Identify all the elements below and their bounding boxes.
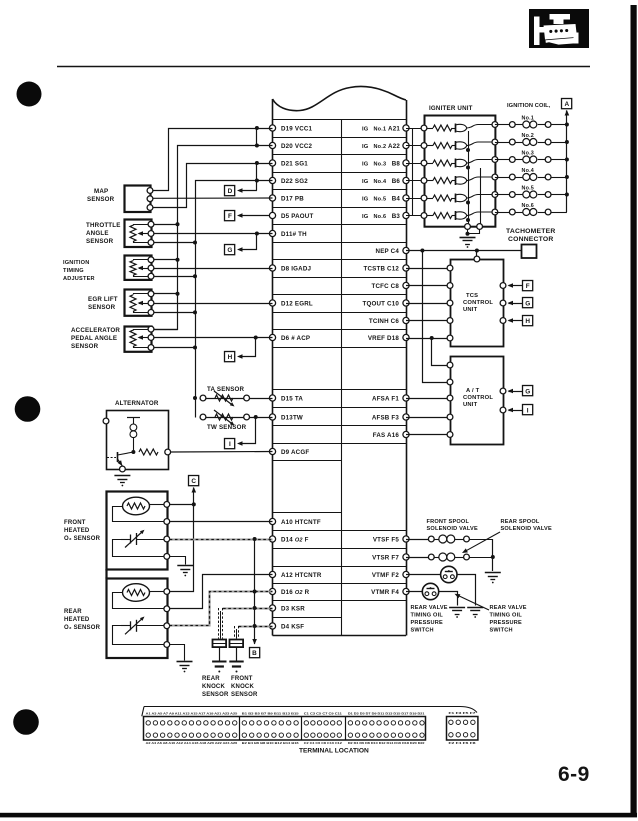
- svg-text:IGNITER UNIT: IGNITER UNIT: [429, 105, 473, 112]
- svg-text:ACCELERATOR: ACCELERATOR: [71, 327, 120, 334]
- terminal group D pins: [348, 721, 352, 725]
- TCS pin (VREF): [447, 335, 453, 341]
- throttle angle sensor pins: [148, 221, 154, 227]
- terminal strip cover line: [142, 707, 477, 717]
- wire coil No.6: [495, 212, 510, 214]
- svg-text:KNOCK: KNOCK: [202, 684, 225, 690]
- TCS pin (TCSTB): [447, 265, 453, 271]
- svg-text:A22: A22: [388, 143, 400, 150]
- ground (front O2 sensor): [177, 565, 193, 567]
- front O2 heater element: [123, 497, 150, 515]
- svg-text:ADJUSTER: ADJUSTER: [63, 276, 95, 282]
- throttle angle sensor wiper arrow: [139, 233, 148, 235]
- TCS top pin: [474, 256, 480, 262]
- ECU right pin terminal at y=398.0: [403, 395, 409, 401]
- svg-text:No.1: No.1: [374, 126, 387, 132]
- ignition timing adjuster box: [125, 256, 152, 280]
- rear O2 sensing element: [121, 625, 130, 627]
- wire igniter ground pins joined: [468, 230, 480, 234]
- wire coil No.4 to common feed: [551, 177, 567, 179]
- valve timing oil pressure switch (VTMR): [422, 583, 438, 599]
- svg-text:No.5: No.5: [374, 196, 387, 202]
- svg-text:FAS A16: FAS A16: [373, 432, 400, 439]
- svg-text:I: I: [229, 441, 231, 448]
- svg-text:PRESSURE: PRESSURE: [490, 620, 522, 626]
- wire coil No.5 to common feed: [551, 194, 567, 196]
- ignition coil No.5 winding: [515, 194, 522, 196]
- svg-text:No.6: No.6: [374, 214, 387, 220]
- tachometer connector box: [522, 245, 537, 259]
- svg-text:CONTROL: CONTROL: [463, 395, 493, 401]
- igniter transistor Q5: [455, 194, 457, 203]
- svg-text:D19 VCC1: D19 VCC1: [281, 125, 313, 132]
- svg-text:VTSR F7: VTSR F7: [372, 554, 399, 561]
- bottom page edge bar: [0, 813, 637, 818]
- connector I (boxed) with arrow from D13 TW row: [225, 439, 235, 449]
- A/T pin (VREF): [447, 362, 453, 368]
- svg-text:HEATED: HEATED: [64, 617, 90, 623]
- ECU right pin terminal at y=434.5: [403, 431, 409, 437]
- binder hole bottom: [13, 709, 39, 735]
- igniter transistor Q6: [455, 211, 457, 220]
- ECU left pin terminal at y=337.5: [269, 334, 275, 340]
- wire coil No.2 to common feed: [551, 142, 567, 144]
- ECU left pin terminal at y=417.0: [269, 414, 275, 420]
- terminal strip F group box: [447, 717, 478, 741]
- header rule: [57, 66, 590, 68]
- ECU left pin terminal at y=591.5: [269, 588, 275, 594]
- svg-text:D14 O2 F: D14 O2 F: [281, 536, 309, 543]
- shielded wire front O2 signal to D14 O2F: [170, 538, 273, 540]
- svg-text:SWITCH: SWITCH: [490, 628, 513, 634]
- wire solenoid common to ground: [492, 539, 494, 571]
- TW sensor thermistor: [200, 414, 206, 420]
- ignition timing adjuster wiper arrow: [139, 268, 148, 270]
- svg-text:F2 F4 F6 F8: F2 F4 F6 F8: [449, 741, 477, 745]
- svg-text:D13TW: D13TW: [281, 414, 303, 421]
- svg-text:D8 IGADJ: D8 IGADJ: [281, 265, 311, 272]
- svg-text:REAR VALVE: REAR VALVE: [411, 605, 448, 611]
- ECU right pin terminal at y=145.5: [403, 142, 409, 148]
- junction D19/D20 tie: [255, 126, 259, 130]
- wire TQOUT to TCS pin: [406, 303, 450, 305]
- wire coil No.2: [495, 142, 510, 144]
- igniter input terminal No.5: [421, 195, 427, 201]
- igniter input terminal No.3: [421, 160, 427, 166]
- ECU internal divider: [341, 120, 343, 636]
- svg-text:A10 HTCNTF: A10 HTCNTF: [281, 519, 321, 526]
- alternator emitter ground terminal: [120, 466, 126, 472]
- svg-text:D4 KSF: D4 KSF: [281, 623, 304, 630]
- ECU right pin terminal at y=128.0: [403, 125, 409, 131]
- wire VTMR switch to ground: [439, 592, 458, 606]
- ECU left pin terminal at y=303.0: [269, 300, 275, 306]
- wire NEP C4 to tachometer connector: [406, 250, 522, 252]
- wire IG No.5 ECU to igniter: [406, 198, 424, 200]
- A/T pin (AFSA): [447, 395, 453, 401]
- wire MAP mid to D17 PB: [150, 197, 273, 199]
- svg-text:SENSOR: SENSOR: [71, 343, 99, 350]
- wire coil No.5: [495, 194, 510, 196]
- wire C bus down to rear O2 heater+: [170, 505, 194, 592]
- igniter input terminal No.4: [421, 178, 427, 184]
- rear O2 heater element: [123, 584, 150, 602]
- EGR lift sensor wiper arrow: [139, 303, 148, 305]
- rear knock sensor: [213, 640, 227, 648]
- svg-text:H: H: [228, 354, 233, 361]
- svg-text:F1 F3 F5 F7: F1 F3 F5 F7: [449, 711, 477, 715]
- svg-text:SENSOR: SENSOR: [87, 196, 115, 203]
- svg-text:A / T: A / T: [466, 388, 480, 394]
- svg-text:FRONT: FRONT: [64, 520, 86, 526]
- ground (igniter unit): [460, 237, 476, 239]
- ECU right pin terminal at y=574.5: [403, 571, 409, 577]
- wire TCSTB to TCS pin: [406, 268, 450, 270]
- igniter collector wire No.6: [467, 212, 495, 216]
- igniter transistor Q2: [455, 141, 457, 150]
- binder hole top: [17, 82, 42, 107]
- junction D21/D22 tie + stub to connector D: [255, 161, 259, 165]
- svg-text:CONNECTOR: CONNECTOR: [508, 236, 553, 243]
- wire VTS row front spool solenoid valve: [406, 539, 428, 541]
- svg-text:D11# TH: D11# TH: [281, 231, 307, 238]
- TCS pin (TQOUT): [447, 300, 453, 306]
- ECU right pin terminal at y=180.5: [403, 177, 409, 183]
- ECM/ECU main box (torn top edge): [273, 87, 407, 111]
- wire VTMF F2 to front switch: [406, 574, 441, 576]
- svg-text:D20 VCC2: D20 VCC2: [281, 143, 313, 150]
- A/T right pin to connector I: [500, 407, 506, 413]
- svg-text:REAR VALVE: REAR VALVE: [490, 605, 527, 611]
- svg-text:F: F: [526, 283, 530, 290]
- svg-text:TIMING OIL: TIMING OIL: [490, 613, 523, 619]
- svg-text:KNOCK: KNOCK: [231, 684, 254, 690]
- ECU right pin terminal at y=163.0: [403, 160, 409, 166]
- svg-text:O₂ SENSOR: O₂ SENSOR: [64, 625, 101, 631]
- igniter resistor R3: [427, 163, 433, 165]
- shielded wire D4 KSF to front knock sensor: [238, 625, 272, 627]
- svg-text:TIMING OIL: TIMING OIL: [411, 613, 444, 619]
- terminal group B pins: [242, 721, 246, 725]
- svg-text:C2 C4 C6 C8 C10 C12: C2 C4 C6 C8 C10 C12: [304, 741, 342, 745]
- igniter output terminal No.6: [492, 209, 498, 215]
- wire EGR bottom to SG2 bus: [151, 312, 195, 314]
- ECU left pin terminal at y=539.0: [269, 536, 275, 542]
- svg-text:TA SENSOR: TA SENSOR: [207, 386, 245, 393]
- ignition coil No.1 winding: [515, 124, 522, 126]
- wire IG No.4 ECU to igniter: [406, 180, 424, 182]
- igniter collector wire No.3: [467, 160, 495, 164]
- svg-text:C1 C3 C5 C7 C9 C11: C1 C3 C5 C7 C9 C11: [304, 711, 342, 715]
- ground (VTMR switch): [449, 607, 465, 609]
- wire VTMR F4 to rear switch: [406, 591, 422, 593]
- wire front O2 heater- to A10 HTCNTF: [170, 521, 273, 523]
- svg-text:O₂ SENSOR: O₂ SENSOR: [64, 536, 101, 542]
- svg-text:THROTTLE: THROTTLE: [86, 222, 121, 229]
- wire VTMF switch to ground: [458, 575, 476, 606]
- wire coil No.1: [495, 124, 510, 126]
- ECU right pin terminal at y=303.0: [403, 300, 409, 306]
- wire coil No.3: [495, 159, 510, 161]
- wire accelerator top to VCC2 bus end: [151, 329, 178, 331]
- ECU right pin terminal at y=417.0: [403, 414, 409, 420]
- A/T right pin to connector G: [500, 388, 506, 394]
- throttle angle sensor box: [125, 220, 152, 248]
- ignition coil No.6 winding: [515, 212, 522, 214]
- igniter output terminal No.5: [492, 192, 498, 198]
- svg-text:B4: B4: [392, 195, 401, 202]
- wire EGR top to VCC2 bus: [151, 293, 178, 295]
- igniter emitter rail 2: [480, 168, 482, 227]
- wire rear O2 heater- to A12 HTCNTR: [170, 575, 273, 609]
- TCS right pin to connector G: [500, 300, 506, 306]
- A/T pin (NEP): [447, 379, 453, 385]
- wire TCFC to TCS pin: [406, 285, 450, 287]
- svg-text:TW SENSOR: TW SENSOR: [207, 424, 247, 431]
- svg-text:No.4: No.4: [374, 179, 387, 185]
- wire front O2 ground: [170, 557, 186, 565]
- wire coil No.1 to common feed: [551, 124, 567, 126]
- ignition timing adjuster potentiometer: [130, 261, 136, 276]
- ground (rear O2 sensor): [177, 661, 193, 663]
- ECU right pin terminal at y=215.5: [403, 212, 409, 218]
- svg-text:VTMF F2: VTMF F2: [372, 572, 400, 579]
- svg-text:D9 ACGF: D9 ACGF: [281, 449, 309, 456]
- igniter output terminal No.2: [492, 139, 498, 145]
- front knock sensor: [230, 640, 244, 648]
- svg-text:SOLENOID VALVE: SOLENOID VALVE: [501, 526, 552, 532]
- svg-text:EGR LIFT: EGR LIFT: [88, 296, 118, 303]
- igniter collector wire No.1: [467, 125, 495, 129]
- svg-text:H: H: [525, 318, 530, 325]
- svg-text:VTMR F4: VTMR F4: [371, 589, 399, 596]
- svg-text:B8: B8: [392, 160, 401, 167]
- ECU right pin terminal at y=198.0: [403, 195, 409, 201]
- svg-text:B: B: [252, 650, 257, 657]
- svg-text:TACHOMETER: TACHOMETER: [506, 228, 555, 235]
- accelerator pedal angle sensor box: [125, 327, 152, 352]
- svg-text:D17 PB: D17 PB: [281, 195, 304, 202]
- svg-text:AFSA F1: AFSA F1: [372, 395, 399, 402]
- svg-text:FRONT SPOOL: FRONT SPOOL: [427, 519, 470, 525]
- MAP sensor pins: [147, 188, 153, 194]
- wire IG No.6 ECU to igniter: [406, 215, 424, 217]
- svg-text:D: D: [228, 188, 233, 195]
- wire throttle top to VCC2 bus: [151, 224, 178, 226]
- svg-text:D5 PAOUT: D5 PAOUT: [281, 213, 313, 220]
- alternator internal coil L: [127, 417, 140, 419]
- svg-text:D15 TA: D15 TA: [281, 395, 303, 402]
- svg-text:A21: A21: [388, 125, 400, 132]
- svg-text:D12 EGRL: D12 EGRL: [281, 300, 313, 307]
- front O2 connector pins: [164, 502, 170, 508]
- wire alternator to D9 ACGF: [171, 451, 273, 454]
- accelerator pedal angle sensor pins: [148, 326, 154, 332]
- wire accelerator bottom to SG2 bus: [151, 347, 195, 349]
- ignition coil No.2 winding: [515, 142, 522, 144]
- svg-text:SENSOR: SENSOR: [88, 304, 116, 311]
- ground (VTMF switch): [467, 607, 483, 609]
- accelerator pedal angle sensor potentiometer: [130, 330, 136, 346]
- svg-text:REAR SPOOL: REAR SPOOL: [501, 519, 540, 525]
- svg-text:IG: IG: [362, 196, 369, 202]
- throttle angle sensor potentiometer: [130, 225, 136, 241]
- svg-text:MAP: MAP: [94, 188, 108, 195]
- igniter ground pins: [465, 224, 471, 230]
- svg-text:IGNITION COIL,: IGNITION COIL,: [507, 103, 551, 109]
- svg-text:CONTROL: CONTROL: [463, 300, 493, 306]
- harness ladder between ECU and igniter: [412, 128, 414, 216]
- svg-text:D2 D4 D6 D8 D10 D12 D14 D16 D1: D2 D4 D6 D8 D10 D12 D14 D16 D18 D20 D22: [348, 741, 425, 745]
- svg-text:TCINH C6: TCINH C6: [369, 318, 399, 325]
- svg-text:TCFC C8: TCFC C8: [371, 283, 399, 290]
- ECU right pin terminal at y=557.0: [403, 554, 409, 560]
- igniter resistor R6: [427, 215, 433, 217]
- connector G (boxed) with arrow from D11 TH row: [225, 245, 235, 255]
- svg-text:SWITCH: SWITCH: [411, 628, 434, 634]
- svg-text:TQOUT C10: TQOUT C10: [362, 300, 399, 307]
- svg-text:G: G: [227, 247, 232, 254]
- right page edge bar: [631, 5, 637, 817]
- igniter input terminal No.1: [421, 125, 427, 131]
- connector A (boxed) with up arrow: [562, 99, 572, 109]
- svg-text:ALTERNATOR: ALTERNATOR: [115, 400, 159, 407]
- terminal group C pins: [304, 721, 308, 725]
- ECU right pin terminal at y=591.5: [403, 588, 409, 594]
- ECU right pin terminal at y=250.5: [403, 247, 409, 253]
- svg-text:D22 SG2: D22 SG2: [281, 178, 308, 185]
- igniter resistor R1: [427, 128, 433, 130]
- svg-text:D1 D3 D5 D7 D9 D11 D13 D15 D17: D1 D3 D5 D7 D9 D11 D13 D15 D17 D19 D21: [348, 711, 425, 715]
- wire rear O2 ground: [170, 645, 185, 661]
- svg-text:UNIT: UNIT: [463, 307, 478, 313]
- front O2 sensing element: [121, 539, 130, 541]
- terminal group F pins: [449, 720, 453, 724]
- EGR lift sensor potentiometer: [130, 295, 136, 312]
- igniter collector wire No.4: [467, 177, 495, 181]
- svg-text:A1 A3 A5 A7 A9 A11 A13 A15 A17: A1 A3 A5 A7 A9 A11 A13 A15 A17 A19 A21 A…: [146, 711, 238, 715]
- svg-text:No.3: No.3: [374, 161, 387, 167]
- shield drain bus to connector B: [254, 539, 256, 644]
- terminal group A pins: [146, 721, 150, 725]
- svg-text:6-9: 6-9: [558, 763, 590, 786]
- ECU left pin terminal at y=268.0: [269, 265, 275, 271]
- svg-text:A2 A4 A6 A8 A10 A12 A14 A16 A1: A2 A4 A6 A8 A10 A12 A14 A16 A18 A20 A22 …: [146, 741, 238, 745]
- svg-text:PEDAL ANGLE: PEDAL ANGLE: [71, 335, 117, 342]
- igniter output terminal No.1: [492, 122, 498, 128]
- ECU left pin terminal at y=145.5: [269, 142, 275, 148]
- wire coil No.4: [495, 177, 510, 179]
- igniter output terminal No.3: [492, 157, 498, 163]
- alternator field terminal: [103, 418, 109, 424]
- rear O2 heater wires: [150, 591, 164, 593]
- svg-text:C: C: [191, 478, 196, 485]
- A/T pin (AFSB): [447, 414, 453, 420]
- wire EGR mid to D12 EGRL: [151, 303, 273, 305]
- svg-text:SENSOR: SENSOR: [86, 238, 114, 245]
- TCS right pin to connector H: [500, 318, 506, 324]
- wire AFSA to A/T pin: [406, 398, 450, 400]
- igniter collector wire No.5: [467, 195, 495, 199]
- terminal strip dividers: [239, 716, 241, 740]
- ECU right pin terminal at y=539.0: [403, 536, 409, 542]
- rear O2 connector pins: [164, 589, 170, 595]
- svg-text:REAR: REAR: [202, 676, 220, 682]
- front O2 sensor box: [107, 492, 168, 570]
- svg-text:TCS: TCS: [466, 293, 478, 299]
- ECU right pin terminal at y=268.0: [403, 265, 409, 271]
- pointer to VTMF switch: [456, 595, 489, 611]
- ignition coil No.4 winding: [515, 177, 522, 179]
- igniter resistor R5: [427, 198, 433, 200]
- svg-text:B3: B3: [392, 213, 401, 220]
- TCS pin (TCINH): [447, 318, 453, 324]
- ECU left pin terminal at y=233.5: [269, 230, 275, 236]
- svg-text:REAR: REAR: [64, 609, 82, 615]
- wire IG No.1 ECU to igniter: [406, 128, 424, 130]
- igniter input terminal No.2: [421, 143, 427, 149]
- connector H (boxed) with arrow from D6 ACP row: [225, 352, 235, 362]
- ECU left pin terminal at y=398.0: [269, 395, 275, 401]
- ignition coil common feed bus: [566, 125, 568, 213]
- igniter emitter rail 1: [468, 131, 470, 227]
- svg-text:D21 SG1: D21 SG1: [281, 160, 308, 167]
- igniter collector wire No.2: [467, 142, 495, 146]
- svg-text:D3 KSR: D3 KSR: [281, 605, 305, 612]
- svg-text:B6: B6: [392, 178, 401, 185]
- ECU right pin terminal at y=320.5: [403, 317, 409, 323]
- svg-text:A12 HTCNTR: A12 HTCNTR: [281, 572, 322, 579]
- svg-text:NEP C4: NEP C4: [376, 248, 400, 255]
- wire bus SG1: D21 row to MAP sensor bottom: [151, 164, 273, 208]
- igniter unit box: [425, 116, 496, 227]
- rear O2 sensor box: [107, 579, 168, 659]
- connector B (boxed) with down arrow: [252, 639, 257, 645]
- igniter transistor Q4: [455, 176, 457, 185]
- accelerator pedal angle sensor wiper arrow: [139, 337, 148, 339]
- wire VREF branch to A/T pin 1: [432, 339, 451, 366]
- svg-text:SENSOR: SENSOR: [231, 692, 258, 698]
- svg-text:IG: IG: [362, 179, 369, 185]
- front O2 heater wires: [150, 504, 164, 506]
- svg-text:VREF D18: VREF D18: [368, 335, 400, 342]
- igniter output terminal No.4: [492, 174, 498, 180]
- svg-text:I: I: [527, 408, 529, 415]
- wire coil No.3 to common feed: [551, 159, 567, 161]
- svg-text:HEATED: HEATED: [64, 528, 90, 534]
- front spool solenoid valve solenoid coil: [434, 539, 438, 541]
- svg-text:IG: IG: [362, 161, 369, 167]
- wire throttle mid to D11 TH: [151, 233, 273, 235]
- svg-text:B2 B4 B6 B8 B10 B12 B14 B16: B2 B4 B6 B8 B10 B12 B14 B16: [242, 741, 299, 745]
- wire IG No.3 ECU to igniter: [406, 163, 424, 165]
- connector D (boxed) with arrow: [225, 186, 235, 196]
- igniter transistor Q3: [455, 159, 457, 168]
- svg-text:TCSTB C12: TCSTB C12: [364, 265, 400, 272]
- igniter transistor Q1: [455, 124, 457, 133]
- svg-text:IG: IG: [362, 144, 369, 150]
- svg-text:IG: IG: [362, 126, 369, 132]
- ECU left pin terminal at y=626.0: [269, 623, 275, 629]
- wire ign timing adjuster mid to D8 IGADJ: [151, 268, 273, 270]
- binder hole middle: [15, 396, 41, 422]
- ECU left pin terminal at y=451.5: [269, 448, 275, 454]
- ECU left pin terminal at y=198.0: [269, 195, 275, 201]
- wire IG No.2 ECU to igniter: [406, 145, 424, 147]
- TCS right pin to connector F: [500, 283, 506, 289]
- svg-text:SENSOR: SENSOR: [202, 692, 229, 698]
- svg-text:IG: IG: [362, 214, 369, 220]
